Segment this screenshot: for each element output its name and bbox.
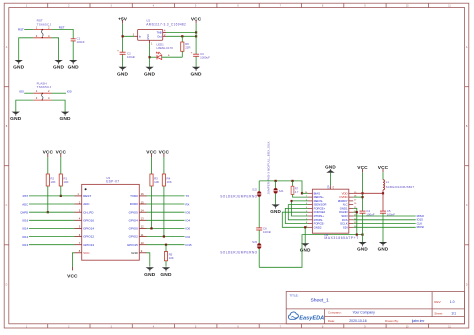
capacitor C6 100nF xyxy=(256,227,271,234)
resistor R5 10K pulldown xyxy=(164,244,173,267)
svg-text:CH_PD: CH_PD xyxy=(83,210,94,214)
svg-text:SJ1: SJ1 xyxy=(279,189,284,193)
ground GND c3 xyxy=(190,67,202,78)
wire RST right to C1 xyxy=(52,29,74,38)
net labels ESP left xyxy=(20,194,28,247)
wire FORCE+ to FORCE- bracket xyxy=(285,208,308,223)
capacitor C2 100uF xyxy=(117,49,135,59)
svg-text:IO15: IO15 xyxy=(186,243,193,247)
wire VCC rail down to C3 xyxy=(195,23,197,54)
svg-text:JUMPER-PAD-3 NO/FULL_BOX_SILK: JUMPER-PAD-3 NO/FULL_BOX_SILK xyxy=(266,141,270,194)
svg-text:MAX31865ATP+T: MAX31865ATP+T xyxy=(324,236,358,240)
svg-text:IO5: IO5 xyxy=(186,211,191,215)
wire REFIN- to RTDIN+ bracket xyxy=(292,201,309,216)
IC U5 MAX31865ATP+T xyxy=(305,185,359,240)
power flag VCC l1 xyxy=(378,165,389,172)
svg-text:EasyEDA: EasyEDA xyxy=(299,315,324,321)
svg-text:RX: RX xyxy=(186,202,190,206)
ground GND c5 xyxy=(378,242,389,251)
svg-text:10: 10 xyxy=(141,241,144,245)
svg-text:16: 16 xyxy=(141,192,144,196)
net labels MISO IO15 CLK MOSI xyxy=(417,214,425,229)
solder jumper SJ3 xyxy=(220,230,261,267)
inductor L1 SCBG201209USB1T xyxy=(383,172,414,190)
svg-text:GPIO4: GPIO4 xyxy=(129,218,139,222)
svg-text:GPIO13: GPIO13 xyxy=(83,243,94,247)
svg-text:100nF: 100nF xyxy=(387,213,395,217)
ground GND c4 xyxy=(357,242,368,251)
svg-text:12: 12 xyxy=(141,225,144,229)
ground GND ep flipped xyxy=(325,164,336,185)
wire GND1 DGND to gnd rail xyxy=(353,208,357,234)
ground GND flash-left xyxy=(10,112,22,123)
resistor R4 10K xyxy=(162,157,171,238)
svg-text:GPIO5: GPIO5 xyxy=(129,210,139,214)
wire FORCE2 to GND2 bracket xyxy=(282,212,308,227)
wire R2 to CH_PD xyxy=(47,186,49,212)
ground GND c2 xyxy=(117,67,129,78)
solder jumper SJ1 xyxy=(274,181,284,205)
svg-text:1.0: 1.0 xyxy=(450,300,455,304)
ground GND r5 xyxy=(160,267,172,278)
svg-text:IO0: IO0 xyxy=(186,227,191,231)
svg-text:GND: GND xyxy=(117,71,129,77)
svg-text:22R: 22R xyxy=(185,46,190,50)
IC U3 ESP-07 xyxy=(75,176,147,260)
svg-text:TXD0: TXD0 xyxy=(130,194,138,198)
power flag VCC r4 xyxy=(159,149,170,157)
svg-text:TX: TX xyxy=(186,194,190,198)
svg-text:4.7: 4.7 xyxy=(295,190,299,194)
svg-text:GND: GND xyxy=(13,65,25,71)
svg-text:GPIO16: GPIO16 xyxy=(83,218,94,222)
svg-text:Drawn By:: Drawn By: xyxy=(385,319,399,323)
svg-text:REST: REST xyxy=(83,194,91,198)
power flag VCC esp xyxy=(67,267,78,279)
svg-text:Company:: Company: xyxy=(328,310,342,314)
wire R1 to RST row xyxy=(60,186,62,196)
net labels ESP right xyxy=(186,194,193,247)
svg-text:10K: 10K xyxy=(63,180,68,184)
svg-text:VCC: VCC xyxy=(83,251,90,255)
svg-text:L1: L1 xyxy=(386,180,390,184)
wire C3 to gnd xyxy=(195,56,197,67)
svg-text:HSMH-C170: HSMH-C170 xyxy=(157,46,174,50)
svg-text:10K: 10K xyxy=(167,180,172,184)
svg-text:GND: GND xyxy=(270,209,281,214)
svg-text:ADC: ADC xyxy=(22,202,28,206)
wires SPI rows SDO CS SCLK SDI xyxy=(353,216,416,227)
resistor R3 10K xyxy=(150,157,159,230)
svg-text:100nF: 100nF xyxy=(77,40,85,44)
wire ESP gnd pin9 xyxy=(147,253,150,267)
power flag VCC r3 xyxy=(146,149,157,157)
ground GND rst-left xyxy=(13,60,25,71)
svg-text:1000uF: 1000uF xyxy=(200,56,210,60)
svg-text:GND: GND xyxy=(300,248,311,253)
svg-text:SDI: SDI xyxy=(343,225,348,229)
svg-text:GND: GND xyxy=(59,116,71,122)
svg-text:SCBG201209USB1T: SCBG201209USB1T xyxy=(386,185,415,189)
TITLEBLOCK xyxy=(286,292,464,324)
svg-text:100uF: 100uF xyxy=(127,55,135,59)
resistor R6 22R xyxy=(181,36,191,57)
wire Out to vcc rail xyxy=(166,35,196,37)
wire FLASH row2 right leg xyxy=(52,100,66,112)
svg-text:GND: GND xyxy=(68,65,80,71)
svg-text:ESP-07: ESP-07 xyxy=(106,180,119,184)
wire IO0 right xyxy=(52,92,67,94)
svg-text:TS665CJ: TS665CJ xyxy=(37,85,52,89)
power flag VCC r1 xyxy=(56,149,67,157)
wire top rail xyxy=(259,181,302,193)
svg-text:GND2: GND2 xyxy=(314,225,322,229)
wire DVDD xyxy=(353,196,362,198)
wire FLASH row2 left leg xyxy=(16,100,33,112)
svg-text:Your Company: Your Company xyxy=(353,311,376,315)
power flag +5V xyxy=(118,16,128,23)
wire VDD rail red xyxy=(353,190,383,193)
svg-text:GND: GND xyxy=(357,246,368,251)
wire RST row2 left leg xyxy=(19,38,34,60)
wire RST row2 right leg xyxy=(52,38,59,60)
wire C1 to ground xyxy=(72,41,74,60)
resistor R1 10K xyxy=(59,157,68,186)
svg-text:TAB: TAB xyxy=(157,31,162,35)
svg-text:+: + xyxy=(117,49,119,53)
svg-text:GND: GND xyxy=(144,272,156,278)
svg-text:RXD0: RXD0 xyxy=(130,202,138,206)
wire RST left xyxy=(24,28,33,30)
svg-text:14: 14 xyxy=(141,209,144,213)
pushbutton RST TS665CJ xyxy=(33,19,51,39)
svg-text:GND: GND xyxy=(325,164,336,169)
junction xyxy=(122,35,124,37)
wire +5V rail xyxy=(123,23,135,52)
svg-text:GPIO0: GPIO0 xyxy=(129,227,139,231)
svg-text:Sheet:: Sheet: xyxy=(434,312,443,316)
svg-text:Date:: Date: xyxy=(328,319,335,323)
wires ESP left rows xyxy=(29,196,75,245)
capacitor C5 100nF xyxy=(380,193,395,242)
svg-text:SOLDERJUMPERNO: SOLDERJUMPERNO xyxy=(220,251,257,255)
capacitor C1 100nF xyxy=(71,36,85,43)
svg-text:10K: 10K xyxy=(169,256,174,260)
wire C2 to gnd xyxy=(122,54,124,67)
wire IO0 left xyxy=(24,92,33,94)
svg-text:1/1: 1/1 xyxy=(451,312,456,316)
svg-text:GND: GND xyxy=(53,65,65,71)
svg-text:IO16: IO16 xyxy=(22,219,29,223)
svg-text:ijatm.imr: ijatm.imr xyxy=(411,319,425,323)
svg-text:REV:: REV: xyxy=(434,300,441,304)
wire ESP vcc pin8 xyxy=(72,253,74,267)
power flag VCC c4 xyxy=(357,165,368,172)
svg-text:AMS1117-3.3_C169482: AMS1117-3.3_C169482 xyxy=(146,22,186,26)
svg-text:SJ3: SJ3 xyxy=(252,240,257,244)
power flag VCC out xyxy=(191,16,202,23)
svg-text:GND: GND xyxy=(10,116,22,122)
svg-text:MOSI: MOSI xyxy=(417,225,425,229)
solder jumper SJ2 xyxy=(220,181,261,228)
ground GND flash-right xyxy=(59,112,71,123)
svg-text:IO13: IO13 xyxy=(22,243,29,247)
svg-text:GND: GND xyxy=(190,71,202,77)
svg-text:GND: GND xyxy=(378,246,389,251)
ground GND rst-mid xyxy=(53,60,65,71)
svg-text:13: 13 xyxy=(141,217,144,221)
ground GND gnd2 xyxy=(300,243,311,252)
wire BIAS xyxy=(302,192,308,194)
resistor R2 10K xyxy=(46,157,55,186)
svg-text:IO2: IO2 xyxy=(186,235,191,239)
svg-text:VCC: VCC xyxy=(67,273,78,279)
ground GND c1 xyxy=(68,60,80,71)
wire SJ3 bottom loop to under-chip rail xyxy=(259,235,362,268)
svg-text:IO0: IO0 xyxy=(67,90,72,94)
svg-text:10K: 10K xyxy=(154,180,159,184)
svg-text:GPIO15: GPIO15 xyxy=(127,243,138,247)
wire GND2 to ground xyxy=(304,227,306,243)
svg-text:GND: GND xyxy=(144,71,156,77)
svg-text:IO12: IO12 xyxy=(22,235,29,239)
svg-text:IO0: IO0 xyxy=(19,90,24,94)
svg-text:IO14: IO14 xyxy=(22,227,29,231)
svg-text:2020-10-16: 2020-10-16 xyxy=(349,319,366,323)
capacitor C4 100nF xyxy=(360,209,375,242)
svg-text:GPIO14: GPIO14 xyxy=(83,227,94,231)
LED LED1 HSMH-C170 xyxy=(150,43,183,60)
capacitor C3 1000uF xyxy=(191,51,211,60)
svg-text:Out: Out xyxy=(157,35,162,39)
ground GND esp xyxy=(144,267,156,278)
svg-text:RST: RST xyxy=(18,27,24,31)
svg-text:IO4: IO4 xyxy=(186,219,191,223)
svg-text:100nF: 100nF xyxy=(263,230,271,234)
regulator U2 AMS1117-3.3 xyxy=(133,18,186,45)
svg-text:GND: GND xyxy=(160,272,172,278)
svg-text:GND: GND xyxy=(131,251,139,255)
wire U2 gnd down xyxy=(149,43,151,66)
svg-text:EP: EP xyxy=(328,185,331,189)
svg-text:SJ2: SJ2 xyxy=(252,187,257,191)
svg-text:TITLE:: TITLE: xyxy=(290,293,299,297)
svg-text:10K: 10K xyxy=(50,180,55,184)
svg-text:SOLDERJUMPERNO: SOLDERJUMPERNO xyxy=(220,195,257,199)
svg-text:ADC: ADC xyxy=(83,202,90,206)
svg-text:RST: RST xyxy=(23,194,29,198)
wire VCC1 down to C4 xyxy=(362,172,364,211)
wires ESP right rows xyxy=(147,196,185,245)
svg-text:15: 15 xyxy=(141,200,144,204)
power flag VCC r2 xyxy=(43,149,54,157)
wire TAB to vcc rail xyxy=(166,31,196,33)
pushbutton FLASH TS665CJ xyxy=(33,82,51,101)
svg-text:Sheet_1: Sheet_1 xyxy=(311,298,330,304)
resistor R7 4.7 xyxy=(291,181,308,197)
svg-text:GPIO12: GPIO12 xyxy=(83,235,94,239)
ground GND u2 xyxy=(144,67,156,78)
ground GND sj1 xyxy=(270,204,281,213)
svg-text:GND: GND xyxy=(147,34,150,40)
svg-text:CHPD: CHPD xyxy=(20,211,28,215)
svg-text:RST: RST xyxy=(59,26,65,30)
svg-text:+: + xyxy=(191,51,193,55)
svg-text:GPIO2: GPIO2 xyxy=(129,235,139,239)
wire ISENSOR to RTDIN- bracket xyxy=(288,205,308,220)
